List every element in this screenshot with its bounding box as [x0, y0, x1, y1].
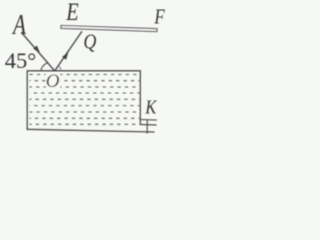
tank top edge / water surface: [27, 70, 142, 72]
svg-text:K: K: [145, 96, 158, 118]
tank right wall: [139, 71, 141, 125]
tank bottom (extends right past wall): [27, 129, 155, 132]
tank left wall: [26, 71, 28, 130]
reflected ray O to mirror at Q: [55, 31, 82, 71]
svg-text:F: F: [154, 6, 166, 29]
tap K: stem: [146, 120, 148, 134]
svg-text:45°: 45°: [5, 48, 37, 73]
mirror EF (thin strip, slightly tilted): [61, 26, 157, 32]
45 degree arc left of O: [41, 63, 48, 71]
incident ray arrowhead: [33, 46, 40, 53]
small arc right of O: [58, 66, 61, 71]
reflected ray arrowhead: [62, 52, 68, 60]
svg-text:O: O: [46, 71, 60, 92]
paper background: [0, 0, 168, 139]
halo behind O label: [46, 74, 60, 89]
svg-text:E: E: [65, 0, 78, 26]
water dashes: [30, 75, 140, 125]
tap K: pipe bottom line: [140, 124, 157, 127]
incident ray A to O: [21, 32, 54, 71]
svg-text:Q: Q: [83, 31, 96, 54]
tap K: pipe top line: [141, 119, 157, 122]
